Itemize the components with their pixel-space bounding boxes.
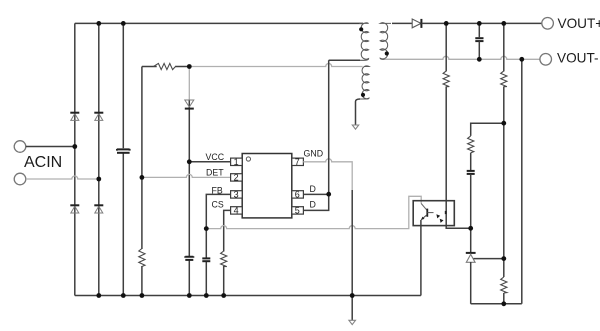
wire compensation C to cathode node <box>470 174 472 228</box>
svg-text:3: 3 <box>234 190 239 200</box>
svg-text:GND: GND <box>304 148 324 158</box>
node bottom rail bulk cap <box>121 293 126 298</box>
ground arrow aux <box>352 125 358 129</box>
wire drain vertical from primary <box>328 60 330 194</box>
wire primary bottom to drain <box>329 59 360 61</box>
wire opto emitter to ground rail <box>420 220 422 296</box>
svg-text:VOUT+: VOUT+ <box>558 16 600 31</box>
capacitor VCC C2 <box>185 256 193 260</box>
wire GND pin 7 with hop <box>303 159 352 200</box>
ground stem main <box>351 296 353 321</box>
wire feedback divider upper <box>503 23 505 123</box>
svg-text:4: 4 <box>234 206 239 216</box>
wire secondary top to output diode <box>392 22 412 24</box>
diode bridge D4 bottom-right <box>94 205 103 213</box>
wire FB node to cap <box>205 229 207 296</box>
terminal ACIN line <box>14 141 26 153</box>
U2 LED emission arrow 1 <box>436 214 440 218</box>
optocoupler U2 box <box>413 201 454 226</box>
node ACIN line junction <box>72 144 77 149</box>
resistor R3 DET lower divider <box>139 249 145 267</box>
node A divider mid <box>501 121 506 126</box>
capacitor bulk C1 <box>117 148 130 153</box>
node LED cathode <box>468 226 473 231</box>
wire secondary rail to VOUT- <box>521 59 523 303</box>
resistor R7 divider lower <box>501 277 507 293</box>
svg-text:1: 1 <box>234 157 239 167</box>
resistor R2 CS sense <box>221 251 227 267</box>
capacitor C5 compensation <box>467 171 475 174</box>
node top rail bridge right <box>96 21 101 26</box>
wire aux feed to winding with hop <box>189 64 362 67</box>
wire bulk capacitor branch vertical <box>122 23 124 295</box>
U1 pin 6 square <box>292 191 304 198</box>
node bottom rail VCC cap <box>187 293 192 298</box>
node bottom rail FB cap <box>204 293 209 298</box>
node ACIN neutral junction <box>96 177 101 182</box>
U1 pin 1 square <box>231 158 243 165</box>
node bottom rail CS resistor <box>221 293 226 298</box>
wire top DC bus rail <box>75 22 363 24</box>
capacitor FB C3 <box>202 258 210 261</box>
wire bridge right leg vertical <box>98 23 100 295</box>
node reference tap <box>501 256 506 261</box>
diode output rectifier D5 <box>412 19 421 28</box>
resistor R1 aux feed <box>154 63 176 69</box>
node drain <box>326 192 331 197</box>
node VOUT+ cap top <box>477 21 482 26</box>
wire node A to compensation branch <box>471 123 504 136</box>
svg-text:VOUT-: VOUT- <box>557 50 599 65</box>
U1 pin1 marker circle <box>246 157 250 161</box>
U2 LED bar <box>445 211 447 214</box>
node VOUT- return <box>519 57 524 62</box>
wire output diode to VOUT+ <box>421 22 541 24</box>
wire aux feed horizontal <box>142 66 189 68</box>
wire feedback divider middle <box>503 123 505 258</box>
wire VCC rectifier branch lower <box>188 100 190 296</box>
wire CS pin 4 branch <box>224 210 231 295</box>
U1 pin 7 square <box>292 158 304 165</box>
wire secondary return to VOUT- with hops <box>385 56 540 59</box>
wire DET to pin 2 with hop <box>142 174 231 177</box>
diode bridge D2 bottom-left <box>70 205 79 213</box>
svg-text:FB: FB <box>212 185 223 195</box>
resistor R5 divider upper <box>501 71 507 87</box>
node output diode cathode <box>444 21 449 26</box>
wire VCC rectifier branch upper <box>188 67 190 100</box>
terminal VOUT+ <box>542 18 554 30</box>
U2 LED emission arrow 2 <box>440 219 444 223</box>
U2 phototransistor <box>421 204 433 220</box>
diode VCC rectifier <box>185 100 194 109</box>
resistor R4 LED series <box>443 71 449 87</box>
diode bridge D1 top-left <box>70 113 79 121</box>
T1 aux polarity dot <box>361 93 365 97</box>
svg-text:5: 5 <box>295 206 300 216</box>
U3 anode lead <box>470 262 472 304</box>
node VOUT- cap bottom <box>477 57 482 62</box>
svg-text:CS: CS <box>212 200 224 210</box>
capacitor output C4 <box>475 38 483 41</box>
wire compensation R to C <box>470 153 472 171</box>
transformer T1 secondary winding <box>380 23 391 60</box>
wire FB node to optocoupler collector with hops <box>206 196 421 228</box>
node aux feed <box>187 64 192 69</box>
wire primary ground bottom rail <box>75 295 421 297</box>
U1 pin 3 square <box>231 191 243 198</box>
node DET tap <box>140 175 145 180</box>
resistor R6 compensation <box>468 136 474 153</box>
wire ACIN neutral to bridge with hop <box>26 176 99 179</box>
wire output cap branch <box>478 23 480 59</box>
svg-text:DET: DET <box>206 167 224 177</box>
U1 pin 2 square <box>231 174 243 181</box>
node divider top <box>501 21 506 26</box>
wire pin 5 D <box>303 194 329 210</box>
U1 pin 5 square <box>292 207 304 214</box>
shunt regulator U3 cathode lead <box>470 228 472 253</box>
wire secondary ground rail <box>471 303 522 305</box>
node bottom rail bridge right <box>96 293 101 298</box>
svg-text:VCC: VCC <box>206 152 225 162</box>
node FB <box>204 226 209 231</box>
wire FB pin 3 to node <box>206 194 231 228</box>
terminal VOUT- <box>540 54 552 66</box>
wire ACIN line to bridge <box>26 146 75 148</box>
op-amp U1 controller IC body <box>242 154 292 218</box>
wire bridge left leg vertical <box>74 23 76 295</box>
transformer T1 primary winding <box>359 23 369 61</box>
wire U3 reference tap <box>474 258 504 260</box>
node secondary rail resistor <box>501 301 506 306</box>
node bottom rail ground <box>350 293 355 298</box>
node top rail bulk cap <box>121 21 126 26</box>
T1 primary polarity dot <box>359 27 363 31</box>
wire GND vertical to rail <box>351 190 353 296</box>
svg-text:6: 6 <box>295 190 300 200</box>
wire aux winding return <box>356 99 361 125</box>
wire VCC to pin 1 <box>189 161 231 163</box>
wire LED feed branch <box>446 23 471 228</box>
transformer T1 aux winding <box>359 66 369 99</box>
diode bridge D3 top-right <box>94 113 103 121</box>
node VCC <box>187 159 192 164</box>
svg-text:D: D <box>310 200 316 210</box>
svg-text:7: 7 <box>295 157 300 167</box>
U3 cathode bar <box>466 252 476 254</box>
U1 pin 4 square <box>231 207 243 214</box>
wire lower resistor to secondary rail <box>503 293 505 304</box>
T1 secondary polarity dot <box>385 51 389 55</box>
svg-text:ACIN: ACIN <box>24 154 62 171</box>
node bottom rail DET divider <box>140 293 145 298</box>
wire pin 6 D <box>303 193 329 195</box>
wire DET divider branch vertical <box>141 67 143 296</box>
U3 triangle <box>466 254 475 262</box>
svg-text:2: 2 <box>234 173 239 183</box>
wire divider to lower resistor <box>503 259 505 277</box>
svg-text:D: D <box>310 184 316 194</box>
ground arrow main <box>349 320 356 324</box>
terminal ACIN neutral <box>14 173 26 185</box>
